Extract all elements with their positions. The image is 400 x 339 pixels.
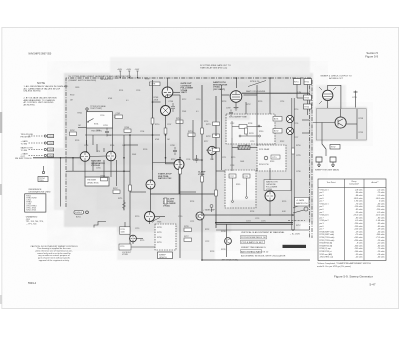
sawtooth out rail [242, 92, 310, 94]
svg-text:R725: R725 [140, 240, 144, 242]
TP704 [42, 171, 44, 173]
svg-text:-290 volts: -290 volts [354, 222, 362, 225]
svg-text:NOTE: NOTE [37, 81, 45, 85]
svg-text:pin 3: pin 3 [320, 195, 324, 197]
svg-text:TIME DELAY GEN (FIG 5-11): TIME DELAY GEN (FIG 5-11) [200, 66, 228, 69]
svg-text:R753: R753 [305, 98, 310, 100]
svg-text:R719: R719 [231, 157, 235, 159]
tube V703A [145, 212, 155, 222]
svg-text:- 49 volts: - 49 volts [377, 228, 385, 231]
svg-text:- 88 volts: - 88 volts [355, 194, 363, 197]
svg-text:R729 (SWP side): R729 (SWP side) [320, 234, 335, 236]
svg-text:0.1: 0.1 [126, 100, 129, 102]
svg-text:-160 volts: -160 volts [354, 250, 362, 253]
svg-text:SWEEP TEST (SEE TABLE): SWEEP TEST (SEE TABLE) [315, 169, 339, 172]
svg-text:+290 volts: +290 volts [354, 239, 363, 242]
svg-text:C701: C701 [96, 130, 100, 132]
svg-text:K701: K701 [94, 124, 98, 126]
resistor R707 [113, 190, 120, 193]
dashed bottom border right [288, 220, 305, 222]
svg-text:-0.5 volts: -0.5 volts [377, 211, 385, 214]
svg-text:+18 volts: +18 volts [377, 253, 385, 256]
svg-text:-1.4 volts: -1.4 volts [377, 188, 385, 191]
resistor R715 [188, 133, 195, 136]
svg-text:NAVSHIPS 0967-050: NAVSHIPS 0967-050 [29, 53, 52, 56]
svg-text:FROM SM: FROM SM [21, 136, 31, 138]
transistor in adj area [226, 224, 228, 257]
svg-text:R706: R706 [101, 176, 106, 178]
svg-text:R746 (C) wpr: R746 (C) wpr [320, 247, 332, 250]
svg-text:R731 (TRIG side): R731 (TRIG side) [320, 240, 335, 242]
tube V704B diode [161, 106, 171, 116]
svg-text:- 60 volts: - 60 volts [377, 256, 385, 259]
wire from pentode to box [245, 102, 247, 114]
svg-text:Actual**: Actual** [371, 181, 378, 184]
wires trigger area [61, 135, 161, 207]
switch below box [322, 140, 326, 149]
svg-text:R750: R750 [294, 109, 298, 111]
svg-text:2.2M: 2.2M [297, 92, 301, 94]
svg-text:LEVEL R705: LEVEL R705 [87, 183, 99, 185]
wires hold-off [130, 135, 180, 258]
svg-text:-1.48 volts: -1.48 volts [376, 219, 385, 222]
sweep oval label [74, 211, 84, 215]
svg-text:pin 6: pin 6 [320, 226, 324, 228]
switch wafer B [286, 127, 293, 134]
svg-text:TRIG: TRIG [39, 180, 44, 182]
svg-text:220K: 220K [154, 99, 159, 101]
svg-text:R756: R756 [296, 145, 301, 147]
svg-text:R722: R722 [206, 136, 211, 138]
capacitor box C720 [119, 244, 131, 250]
svg-text:Computed*: Computed* [349, 182, 359, 185]
svg-text:- 70 volts: - 70 volts [355, 202, 363, 205]
scan artifact left margin [0, 112, 2, 133]
svg-text:C708: C708 [170, 145, 175, 147]
svg-text:C714: C714 [280, 101, 284, 103]
label sawtooth cathode follower [264, 180, 291, 191]
wires sawtooth [202, 78, 257, 260]
svg-text:+5 GATE: +5 GATE [296, 199, 305, 202]
svg-text:- 45 volts: - 45 volts [355, 256, 363, 259]
ground under V705A [234, 102, 239, 110]
svg-text:C728: C728 [230, 165, 234, 167]
supply stubs [119, 71, 139, 78]
svg-text:- 85 volts: - 85 volts [377, 222, 385, 225]
svg-text:S702: S702 [331, 147, 335, 149]
svg-text:R741/R745 (A): R741/R745 (A) [320, 242, 333, 245]
connector box right of stubs [150, 82, 161, 86]
svg-text:C703: C703 [103, 125, 108, 127]
ground cap near clamp [195, 155, 199, 162]
svg-text:TEST POINT): TEST POINT) [90, 108, 102, 110]
tube V705B [265, 191, 275, 201]
svg-text:(1/2 12AU7): (1/2 12AU7) [213, 88, 225, 91]
svg-text:-82.5 volts: -82.5 volts [376, 214, 385, 217]
svg-text:- 29 volts: - 29 volts [355, 230, 363, 233]
tube V701B [106, 151, 116, 161]
svg-text:R702: R702 [70, 130, 75, 132]
svg-text:R751: R751 [294, 82, 299, 84]
svg-text:V703A: V703A [163, 204, 170, 207]
resistor R714 [176, 120, 183, 123]
svg-text:C703: C703 [84, 145, 88, 147]
darker scan patches [78, 82, 300, 230]
svg-text:C705: C705 [136, 90, 140, 92]
svg-text:R711: R711 [118, 198, 122, 200]
svg-text:C729: C729 [296, 155, 301, 157]
svg-text:-150 volts: -150 volts [354, 205, 362, 208]
svg-text:R740: R740 [259, 131, 263, 133]
svg-text:R737: R737 [246, 104, 251, 106]
svg-text:C707: C707 [167, 124, 171, 126]
svg-text:- 85 volts: - 85 volts [377, 216, 385, 219]
svg-text:R701: R701 [119, 90, 123, 92]
svg-text:R716: R716 [204, 121, 208, 123]
svg-text:SAWTOOTH: SAWTOOTH [296, 202, 308, 205]
svg-text:12AT7: 12AT7 [181, 91, 188, 94]
svg-text:-1.5 volts: -1.5 volts [377, 194, 385, 197]
svg-text:+165 volts: +165 volts [354, 236, 363, 239]
svg-text:0 volts: 0 volts [379, 200, 385, 203]
components right of hold-off [184, 228, 192, 231]
svg-text:R724: R724 [190, 201, 194, 203]
svg-text:R733: R733 [210, 251, 214, 253]
switch S703 lever [153, 218, 160, 222]
svg-text:- 75 volts: - 75 volts [377, 191, 385, 194]
svg-text:-0.5 volts: -0.5 volts [355, 219, 363, 222]
svg-text:R709: R709 [143, 149, 147, 151]
svg-text:C717: C717 [230, 176, 234, 178]
svg-text:C711: C711 [222, 157, 226, 159]
wire bus y194 [150, 193, 216, 195]
svg-text:R735: R735 [282, 201, 286, 203]
svg-text:R754: R754 [305, 107, 310, 109]
ground symbols [316, 157, 336, 167]
relay box K701 [87, 112, 113, 128]
extra short wires [87, 102, 271, 192]
svg-text:- 29 volts: - 29 volts [377, 239, 385, 242]
svg-text:R748: R748 [221, 231, 226, 233]
svg-text:- 95 volts: - 95 volts [355, 253, 363, 256]
svg-text:V701 pin 1: V701 pin 1 [320, 189, 329, 191]
transistor Q702 output [335, 117, 346, 128]
reference designations box [25, 194, 46, 212]
tube V706 [323, 90, 333, 100]
svg-text:-239 volts: -239 volts [354, 225, 362, 228]
svg-text:- 8 volts: - 8 volts [356, 242, 363, 245]
horizontal wire y230 [216, 229, 293, 231]
svg-text:C702: C702 [116, 113, 121, 115]
svg-text:C725: C725 [261, 221, 266, 223]
svg-text:Figure 5-9: Figure 5-9 [365, 55, 378, 59]
svg-text:R708: R708 [145, 79, 149, 81]
svg-text:R738: R738 [248, 123, 252, 125]
svg-text:R701: R701 [78, 113, 83, 115]
svg-text:pin 2: pin 2 [320, 192, 324, 194]
svg-text:5-47: 5-47 [370, 283, 376, 287]
svg-text:+ GATE AMP: + GATE AMP [203, 209, 215, 212]
svg-text:TRIG: TRIG [157, 222, 162, 224]
svg-text:R721: R721 [206, 124, 211, 126]
svg-text:C700: C700 [100, 115, 104, 117]
svg-text:R710: R710 [155, 124, 159, 126]
svg-text:C715: C715 [272, 157, 277, 159]
svg-text:R715: R715 [188, 131, 193, 133]
svg-text:TRIGGER: TRIGGER [87, 180, 97, 182]
scan gray wash main schematic [54, 57, 367, 260]
svg-text:R700: R700 [70, 95, 74, 97]
svg-text:R736 0.1%: R736 0.1% [250, 81, 260, 83]
svg-text:C721: C721 [190, 221, 194, 223]
svg-text:-205 volts: -205 volts [354, 247, 362, 250]
svg-text:+120 volts: +120 volts [354, 228, 363, 231]
tube V704B clamp [208, 146, 216, 154]
svg-text:R752: R752 [305, 82, 310, 84]
svg-text:C704: C704 [140, 131, 144, 133]
svg-text:C730: C730 [296, 171, 301, 173]
svg-text:AS NOTED.: AS NOTED. [24, 103, 36, 106]
svg-text:UNLESS NOTED.: UNLESS NOTED. [24, 91, 42, 93]
svg-text:- 75 volts: - 75 volts [377, 247, 385, 250]
svg-text:pin 7: pin 7 [320, 212, 324, 214]
svg-text:R749: R749 [221, 249, 226, 251]
svg-text:R706: R706 [110, 145, 114, 147]
svg-text:AS DESIRED IN MODE, WITH OSCIL: AS DESIRED IN MODE, WITH OSCILLATOR [241, 255, 286, 258]
svg-text:-300 volts: -300 volts [354, 244, 362, 247]
svg-text:R758: R758 [359, 118, 364, 120]
svg-text:AZ RING CKT: AZ RING CKT [329, 77, 344, 80]
svg-text:C705: C705 [96, 168, 101, 170]
svg-text:R729: R729 [157, 232, 162, 234]
svg-text:C706: C706 [169, 101, 174, 103]
svg-text:→ B+ 250V: → B+ 250V [290, 234, 301, 236]
svg-text:R707: R707 [113, 188, 118, 190]
resistor box R719a [120, 227, 131, 234]
svg-text:SWEEP: SWEEP [75, 212, 83, 214]
svg-text:+85.5 volts: +85.5 volts [353, 214, 362, 217]
svg-text:TO SM: TO SM [21, 143, 28, 145]
svg-text:DESIGNATIONS USED: DESIGNATIONS USED [29, 190, 51, 193]
svg-text:J704 (TRIG out): J704 (TRIG out) [320, 256, 334, 259]
svg-text:+21 volts: +21 volts [377, 242, 385, 245]
svg-text:R723: R723 [206, 150, 211, 152]
svg-text:R745: R745 [236, 184, 240, 186]
wires gate CF [153, 78, 181, 194]
svg-text:ANT DET(ACTUAL): ANT DET(ACTUAL) [222, 259, 239, 262]
svg-text:C709: C709 [186, 159, 190, 161]
svg-text:0.1: 0.1 [196, 111, 199, 113]
assembly dashed border [66, 78, 312, 238]
svg-text:RATOR V702: RATOR V702 [158, 177, 172, 180]
sweep cal box [155, 224, 176, 250]
wire [86, 110, 88, 112]
tube V702A [174, 160, 184, 170]
svg-text:V705 pin 2: V705 pin 2 [320, 220, 329, 222]
svg-text:SAWTOOTH 100V/MS: SAWTOOTH 100V/MS [246, 90, 266, 93]
svg-text:approval of the cognizant acti: approval of the cognizant activity. [39, 259, 70, 262]
svg-text:R712: R712 [182, 99, 186, 101]
voltage divider chain right [294, 79, 312, 116]
voltage table [318, 179, 386, 261]
svg-text:R742: R742 [280, 141, 284, 143]
svg-text:-86.5 volts: -86.5 volts [376, 197, 385, 200]
svg-text:*Unless Completed, *CLAMP/PRE-: *Unless Completed, *CLAMP/PRE-AMP/SWEEP … [317, 262, 371, 265]
dashed box S701 front [225, 170, 256, 208]
svg-text:R743: R743 [270, 161, 274, 163]
svg-text:R703: R703 [107, 135, 111, 137]
svg-text:- 80 volts: - 80 volts [355, 191, 363, 194]
wires sweep output [328, 85, 358, 117]
svg-text:+300V: +300V [117, 69, 123, 71]
svg-text:pin 6: pin 6 [320, 209, 324, 211]
svg-text:- 99 volts: - 99 volts [355, 211, 363, 214]
svg-text:C733: C733 [352, 97, 357, 99]
svg-text:R758 R759 jct: R758 R759 jct [320, 250, 332, 253]
svg-text:LENGTH: LENGTH [159, 257, 167, 259]
resistor R706 [101, 178, 108, 181]
svg-text:R728: R728 [157, 227, 162, 229]
TP703 test point [86, 108, 88, 110]
svg-text:R731: R731 [157, 242, 162, 244]
svg-text:TO SM: TO SM [21, 150, 28, 152]
svg-text:R734: R734 [250, 211, 254, 213]
svg-text:SM SWP OUT: SM SWP OUT [101, 79, 114, 81]
svg-text:S701 SWEEP TIME: S701 SWEEP TIME [229, 117, 247, 119]
svg-text:SWEEP TIME RANGE IS: SWEEP TIME RANGE IS [241, 246, 266, 249]
svg-text:R744/R755 (B): R744/R755 (B) [320, 245, 333, 247]
svg-text:1.90 volts: 1.90 volts [354, 200, 362, 203]
svg-text:- 30 volts: - 30 volts [377, 230, 385, 233]
tube V705A pentode [230, 91, 242, 103]
svg-text:V704B: V704B [198, 173, 205, 176]
transistor Q701 [196, 212, 204, 220]
svg-text:VERTICAL IS ADJUSTMENT AT MARG: VERTICAL IS ADJUSTMENT AT MARGINAL [241, 231, 285, 234]
svg-text:-340 volts: -340 volts [376, 233, 384, 236]
test point TP705 [210, 205, 213, 208]
svg-text:C720: C720 [178, 216, 182, 218]
thick bus wires [215, 222, 293, 224]
svg-text:R720: R720 [135, 216, 139, 218]
svg-text:5549-4: 5549-4 [28, 281, 37, 285]
lower dashed box S701 rear [257, 145, 286, 171]
vertical wires mid [166, 95, 202, 160]
svg-text:-88.3 volts: -88.3 volts [354, 197, 363, 200]
tube V704A [162, 87, 173, 98]
tube V702B lockout [130, 235, 137, 242]
svg-text:R727: R727 [184, 236, 189, 238]
wire grid trigger area [66, 135, 130, 210]
svg-text:R739: R739 [258, 101, 262, 103]
svg-text:V702 pin 1: V702 pin 1 [320, 203, 329, 205]
svg-text:C710: C710 [196, 99, 200, 101]
svg-text:C718: C718 [244, 176, 248, 178]
wire [232, 147, 238, 149]
svg-text:-0.8 volts: -0.8 volts [355, 188, 363, 191]
svg-text:S702 arm (AB): S702 arm (AB) [320, 253, 333, 256]
misc right wires [293, 120, 310, 230]
svg-text:C724: C724 [246, 221, 251, 223]
svg-text:C727: C727 [294, 137, 298, 139]
tube V702 [146, 180, 155, 189]
svg-text:R759: R759 [359, 132, 364, 134]
svg-text:C709: C709 [226, 108, 231, 110]
svg-text:+100V: +100V [126, 69, 132, 71]
svg-text:C722: C722 [205, 241, 209, 243]
svg-text:Figure 5-9. Sweep Generator: Figure 5-9. Sweep Generator [334, 275, 373, 279]
resistor R744 hatched [238, 146, 250, 150]
resistors along x216 [213, 122, 220, 125]
svg-text:pin 6: pin 6 [320, 198, 324, 200]
switch wafer A [286, 115, 293, 122]
svg-text:Test Point: Test Point [327, 181, 336, 184]
trigger level box [85, 177, 109, 186]
svg-text:C699: C699 [75, 87, 79, 89]
svg-text:pin 2: pin 2 [320, 206, 324, 208]
sweep gate oval [304, 207, 308, 211]
svg-text:- 85 volts: - 85 volts [355, 216, 363, 219]
svg-text:C726: C726 [294, 123, 298, 125]
svg-text:pin 3: pin 3 [320, 223, 324, 225]
svg-text:SM SWP TRIG IN: SM SWP TRIG IN [15, 158, 32, 160]
small inline resistor boxes on verticals [151, 118, 154, 124]
svg-text:S701 REAR: S701 REAR [259, 148, 270, 151]
svg-text:→ TP1, 704: → TP1, 704 [26, 223, 38, 225]
svg-text:-250 volts: -250 volts [376, 208, 384, 211]
mottle texture [60, 70, 315, 242]
svg-text:V702B: V702B [122, 254, 128, 256]
svg-text:A701: A701 [274, 118, 278, 121]
svg-text:R717: R717 [204, 141, 208, 143]
gray box output stage [316, 109, 366, 140]
svg-text:V703 pin 6: V703 pin 6 [320, 215, 329, 217]
svg-text:pin 7: pin 7 [320, 229, 324, 231]
tube V701A [80, 152, 90, 162]
svg-text:R728 (SWP side): R728 (SWP side) [320, 231, 335, 233]
svg-text:A702: A702 [274, 130, 278, 133]
wires lockout [94, 222, 155, 248]
svg-text:R705: R705 [75, 140, 79, 142]
svg-text:-71.5 volts: -71.5 volts [376, 236, 385, 239]
svg-text:R713: R713 [171, 159, 175, 161]
svg-text:R732: R732 [205, 229, 209, 231]
svg-text:(SWEEP SWITCH SHOWN): (SWEEP SWITCH SHOWN) [69, 80, 97, 82]
svg-text:R730 (TRIG side): R730 (TRIG side) [320, 237, 335, 239]
svg-text:C723: C723 [255, 218, 259, 220]
svg-text:+75 volts: +75 volts [355, 233, 363, 236]
svg-text:R730: R730 [157, 237, 162, 239]
svg-text:- 80 volts: - 80 volts [377, 244, 385, 247]
svg-text:5V JITTER-FREE SWEEP GENERATOR: 5V JITTER-FREE SWEEP GENERATOR AND GATE … [69, 75, 132, 78]
svg-text:- 82 volts: - 82 volts [355, 208, 363, 211]
svg-text:R757: R757 [296, 225, 301, 227]
svg-text:C713: C713 [250, 141, 254, 143]
svg-text:R718: R718 [222, 101, 226, 103]
svg-text:R704: R704 [125, 127, 130, 129]
sweep length label [158, 252, 173, 259]
svg-text:S702, K701: S702, K701 [26, 210, 36, 212]
svg-text:R726: R726 [184, 226, 189, 228]
switch S701 dashed box [226, 114, 275, 144]
svg-text:R744 C716: R744 C716 [259, 164, 269, 166]
svg-text:C712: C712 [230, 123, 234, 125]
svg-text:- 60 volts: - 60 volts [377, 202, 385, 205]
svg-text:R741: R741 [249, 133, 254, 135]
pointer to R736 [248, 81, 266, 87]
white interior holes [85, 114, 286, 250]
svg-text:-150 volts: -150 volts [376, 205, 384, 208]
svg-text:C719: C719 [135, 228, 139, 230]
